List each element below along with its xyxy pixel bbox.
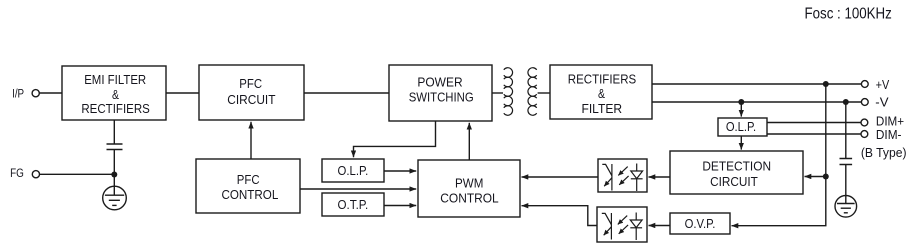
wire arrow PWM CONTROL to POWER SWITCHING xyxy=(468,123,470,160)
svg-text:POWER: POWER xyxy=(417,74,462,89)
block O.L.P. xyxy=(322,159,384,182)
svg-text:-V: -V xyxy=(875,94,889,109)
wire PFC circuit to POWER SWITCHING xyxy=(304,92,389,94)
block PWM CONTROL xyxy=(418,160,520,217)
wire EMI bottom to capacitor C1 xyxy=(113,120,115,144)
block EMI FILTER & RECTIFIERS xyxy=(62,66,166,120)
wire -V rail xyxy=(652,101,861,103)
svg-text:RECTIFIERS: RECTIFIERS xyxy=(568,71,637,86)
wire +V rail xyxy=(652,83,861,85)
node -V junction at OLP xyxy=(738,99,744,105)
block O.L.P. output xyxy=(718,118,767,136)
svg-text:CONTROL: CONTROL xyxy=(221,187,278,202)
wire arrow feed into DETECTION CIRCUIT right xyxy=(805,176,826,178)
optocoupler U2 xyxy=(597,207,647,242)
svg-text:(B Type): (B Type) xyxy=(861,145,907,160)
wire arrow DETECTION CIRCUIT to optocoupler U1 xyxy=(649,176,671,178)
block POWER SWITCHING xyxy=(389,65,492,121)
wire -V node down to capacitor xyxy=(845,102,847,159)
wire capacitor C2 to ground xyxy=(845,165,847,196)
svg-text:I/P: I/P xyxy=(12,87,24,101)
wire transformer to RECTIFIERS & FILTER xyxy=(538,92,550,94)
svg-text:O.V.P.: O.V.P. xyxy=(685,216,716,231)
wire arrow O.T.P. to PWM CONTROL xyxy=(384,205,416,207)
svg-text:FG: FG xyxy=(10,166,24,180)
block PFC CIRCUIT xyxy=(199,65,304,120)
capacitor C2 xyxy=(840,159,853,165)
svg-text:&: & xyxy=(112,87,119,102)
svg-text:CIRCUIT: CIRCUIT xyxy=(227,92,275,107)
optocoupler U1 xyxy=(598,159,647,192)
terminal -V xyxy=(861,94,889,109)
svg-text:DETECTION: DETECTION xyxy=(702,158,771,173)
svg-text:SWITCHING: SWITCHING xyxy=(409,89,474,104)
wire DIM+ xyxy=(767,122,861,124)
wire arrow POWER SWITCHING to O.L.P. xyxy=(354,121,436,157)
capacitor C1 xyxy=(107,144,123,150)
svg-text:Fosc : 100KHz: Fosc : 100KHz xyxy=(805,5,892,22)
wire node to ground G1 xyxy=(113,175,115,196)
node FG junction xyxy=(111,172,117,178)
svg-text:PWM: PWM xyxy=(455,176,483,191)
svg-text:&: & xyxy=(598,86,605,101)
svg-text:DIM-: DIM- xyxy=(876,127,902,142)
svg-text:EMI FILTER: EMI FILTER xyxy=(84,72,146,87)
block O.T.P. xyxy=(322,193,384,216)
block PFC CONTROL xyxy=(196,159,300,213)
terminal +V xyxy=(861,77,889,92)
svg-text:O.L.P.: O.L.P. xyxy=(726,119,756,134)
wire arrow O.V.P. to optocoupler U2 xyxy=(649,225,671,227)
svg-text:PFC: PFC xyxy=(237,172,260,187)
wire capacitor C1 to FG node xyxy=(113,150,115,175)
transformer T1 primary winding xyxy=(504,68,513,116)
svg-text:CIRCUIT: CIRCUIT xyxy=(710,174,758,189)
wire arrow optocoupler U1 to PWM CONTROL xyxy=(522,176,599,178)
terminal DIM- xyxy=(861,127,902,142)
transformer T1 secondary winding xyxy=(528,68,537,116)
wire POWER SWITCHING to transformer xyxy=(492,92,503,94)
node detection feed junction xyxy=(823,174,829,180)
block RECTIFIERS & FILTER xyxy=(550,65,652,119)
ground G1 xyxy=(103,186,127,210)
node -V junction at capacitor xyxy=(843,99,849,105)
wire arrow PFC CONTROL to PFC CIRCUIT xyxy=(250,122,252,159)
wire EMI to PFC circuit xyxy=(166,92,199,94)
svg-text:CONTROL: CONTROL xyxy=(440,191,498,206)
wire arrow feed down and left into O.V.P. xyxy=(732,177,826,226)
terminal DIM+ xyxy=(861,113,904,128)
wire DIM- xyxy=(767,133,861,135)
block O.V.P. xyxy=(670,213,730,234)
wire I/P to EMI filter xyxy=(39,92,62,94)
terminal I/P xyxy=(12,87,39,101)
svg-text:PFC: PFC xyxy=(239,76,262,91)
terminal FG xyxy=(10,166,39,180)
wire arrow PFC CONTROL to PWM CONTROL xyxy=(300,188,416,190)
wire FG to node xyxy=(40,173,115,175)
svg-text:O.T.P.: O.T.P. xyxy=(338,197,369,212)
svg-text:+V: +V xyxy=(876,77,890,92)
wire arrow OLP output to DETECTION CIRCUIT xyxy=(740,136,742,150)
node +V junction xyxy=(823,81,829,87)
svg-text:RECTIFIERS: RECTIFIERS xyxy=(81,101,150,116)
svg-text:FILTER: FILTER xyxy=(581,101,622,116)
wire arrow -V node to OLP output sense xyxy=(740,102,742,117)
ground G2 xyxy=(835,196,857,218)
wire arrow optocoupler U2 to PWM CONTROL xyxy=(522,206,598,226)
block DETECTION CIRCUIT xyxy=(670,151,803,194)
wire +V node down to detection feed xyxy=(825,84,827,177)
svg-text:O.L.P.: O.L.P. xyxy=(338,163,369,178)
wire arrow O.L.P. to PWM CONTROL xyxy=(384,170,416,172)
